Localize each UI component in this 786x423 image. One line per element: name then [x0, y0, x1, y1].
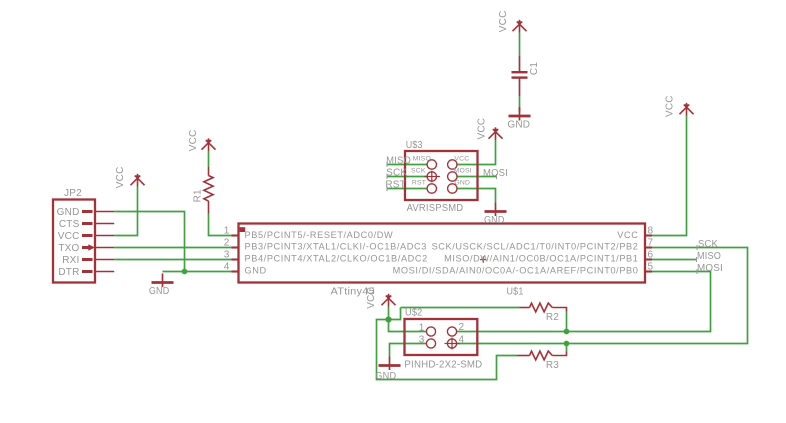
svg-text:RST: RST [385, 180, 406, 191]
svg-text:PINHD-2X2-SMD: PINHD-2X2-SMD [404, 360, 482, 371]
svg-text:SCK: SCK [411, 168, 426, 175]
svg-text:GND: GND [149, 286, 170, 297]
svg-text:PB3/PCINT3/XTAL1/CLKI/-OC1B/AD: PB3/PCINT3/XTAL1/CLKI/-OC1B/ADC3 [245, 242, 427, 252]
svg-text:U$3: U$3 [406, 140, 423, 151]
svg-text:1: 1 [419, 323, 425, 334]
svg-text:VCC: VCC [498, 10, 509, 32]
svg-text:4: 4 [224, 262, 230, 273]
svg-text:AVRISPSMD: AVRISPSMD [407, 203, 464, 214]
svg-text:MOSI/DI/SDA/AIN0/OC0A/-OC1A/AR: MOSI/DI/SDA/AIN0/OC0A/-OC1A/AREF/PCINT0/… [393, 266, 639, 276]
svg-text:MOSI: MOSI [697, 263, 723, 274]
svg-text:RST: RST [412, 179, 426, 186]
svg-text:1: 1 [224, 226, 230, 237]
svg-text:3: 3 [419, 335, 425, 346]
svg-text:R1: R1 [193, 189, 204, 202]
svg-text:7: 7 [648, 238, 654, 249]
svg-text:MOSI: MOSI [483, 168, 508, 179]
svg-text:VCC: VCC [115, 166, 126, 188]
svg-text:R2: R2 [546, 312, 559, 323]
svg-text:GND: GND [507, 120, 530, 131]
svg-text:2: 2 [224, 238, 230, 249]
svg-text:PB4/PCINT4/XTAL2/CLKO/OC1B/ADC: PB4/PCINT4/XTAL2/CLKO/OC1B/ADC2 [245, 254, 428, 264]
svg-text:MOSI: MOSI [454, 168, 472, 175]
svg-text:8: 8 [648, 226, 654, 237]
svg-text:VCC: VCC [665, 95, 676, 117]
svg-text:SCK: SCK [698, 239, 718, 250]
svg-text:3: 3 [224, 250, 230, 261]
svg-text:2: 2 [459, 322, 465, 333]
svg-text:C1: C1 [529, 62, 540, 75]
svg-text:VCC: VCC [188, 130, 199, 152]
svg-text:SCK: SCK [386, 168, 407, 179]
svg-text:SCK/USCK/SCL/ADC1/T0/INT0/PCIN: SCK/USCK/SCL/ADC1/T0/INT0/PCINT2/PB2 [432, 242, 639, 252]
svg-text:MISO: MISO [413, 156, 431, 163]
svg-text:U$1: U$1 [507, 287, 524, 298]
svg-text:GND: GND [57, 207, 80, 218]
svg-text:JP2: JP2 [64, 188, 82, 199]
svg-text:MISO: MISO [386, 156, 411, 167]
svg-text:RXI: RXI [62, 255, 79, 266]
svg-text:GND: GND [484, 215, 505, 226]
svg-text:GND: GND [454, 179, 470, 186]
svg-text:VCC: VCC [617, 230, 638, 240]
svg-text:ATtiny45: ATtiny45 [331, 287, 376, 298]
svg-text:MISO/DW/AIN1/OC0B/OC1A/PCINT1/: MISO/DW/AIN1/OC0B/OC1A/PCINT1/PB1 [444, 254, 638, 264]
svg-text:R3: R3 [546, 360, 559, 371]
svg-text:GND: GND [245, 266, 267, 276]
svg-text:TXO: TXO [58, 243, 79, 254]
svg-text:PB5/PCINT5/-RESET/ADC0/DW: PB5/PCINT5/-RESET/ADC0/DW [245, 230, 394, 240]
svg-text:6: 6 [648, 250, 654, 261]
svg-text:U$2: U$2 [405, 308, 423, 319]
svg-text:CTS: CTS [59, 219, 80, 230]
svg-text:MISO: MISO [697, 251, 721, 262]
svg-text:5: 5 [648, 262, 654, 273]
svg-text:VCC: VCC [454, 156, 469, 163]
svg-text:VCC: VCC [58, 231, 80, 242]
svg-text:GND: GND [375, 371, 396, 382]
svg-text:4: 4 [459, 335, 465, 346]
svg-text:DTR: DTR [58, 267, 79, 278]
svg-text:VCC: VCC [477, 118, 488, 140]
